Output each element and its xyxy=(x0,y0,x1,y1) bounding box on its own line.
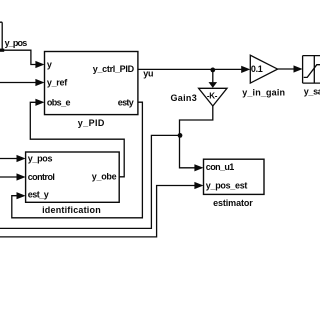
arrow into y_ref port xyxy=(35,79,44,86)
arrow into est_y port xyxy=(17,192,26,199)
svg-text:y_ctrl_PID: y_ctrl_PID xyxy=(93,64,135,74)
junction on Gain3 output wire xyxy=(178,133,183,138)
svg-text:con_u1: con_u1 xyxy=(206,162,235,172)
subsystem block identification xyxy=(26,152,120,202)
junction on yu wire xyxy=(210,68,215,73)
wire y_pos_est feed from left edge to estimator xyxy=(0,186,195,237)
arrow into y_pos_est port xyxy=(194,182,203,189)
svg-text:y_PID: y_PID xyxy=(78,118,105,128)
gain block Gain3 (triangle pointing down) xyxy=(199,88,227,106)
svg-text:-K-: -K- xyxy=(207,91,218,100)
wire y_in_gain output to saturation xyxy=(278,68,294,70)
wire control input from left edge xyxy=(0,176,17,178)
svg-text:y_sat: y_sat xyxy=(304,87,320,97)
subsystem block y_PID xyxy=(45,52,138,115)
subsystem block estimator xyxy=(204,159,265,194)
svg-text:0.1: 0.1 xyxy=(251,64,263,74)
arrow into con_u1 xyxy=(194,164,203,171)
wire branch to left edge (control loop out) xyxy=(0,135,180,228)
arrow into y_in_gain xyxy=(241,66,250,73)
arrow into obs_e port xyxy=(35,99,44,106)
gain block y_in_gain (triangle) xyxy=(250,55,277,83)
svg-text:control: control xyxy=(28,172,55,182)
svg-text:est_y: est_y xyxy=(28,190,49,200)
svg-text:y_in_gain: y_in_gain xyxy=(242,87,285,97)
wire y_ref from left edge xyxy=(0,82,36,84)
arrow into saturation block xyxy=(294,65,303,72)
svg-text:obs_e: obs_e xyxy=(47,97,71,107)
wire obs_e loop (from y_obe output of identification) xyxy=(30,102,124,177)
svg-text:identification: identification xyxy=(42,205,101,215)
arrow into Gain3 xyxy=(209,82,218,88)
svg-text:y: y xyxy=(47,60,52,70)
svg-text:y_ref: y_ref xyxy=(47,78,68,88)
saturation block y_sat (cut off at right edge) xyxy=(303,56,320,84)
svg-text:y_pos_est: y_pos_est xyxy=(206,181,248,191)
arrow into y_pos port xyxy=(17,155,26,162)
svg-text:Gain3: Gain3 xyxy=(170,93,197,103)
svg-text:estimator: estimator xyxy=(213,198,253,208)
arrow into control port xyxy=(17,173,26,180)
output port stub of cut block xyxy=(0,49,4,52)
wire y_pos to y input of y_PID xyxy=(2,50,36,64)
block (cut off at left edge) with y_pos output xyxy=(0,22,2,50)
svg-text:esty: esty xyxy=(118,98,134,108)
wire Gain3 output to con_u1 of estimator xyxy=(180,106,213,168)
arrow into y port xyxy=(35,61,44,68)
svg-text:y_obe: y_obe xyxy=(92,171,117,181)
svg-text:y_pos: y_pos xyxy=(5,38,28,48)
svg-text:y_pos: y_pos xyxy=(28,154,53,164)
wire esty loop (esty output to est_y input) xyxy=(12,102,143,218)
wire yu (y_ctrl_PID output to y_in_gain) xyxy=(138,68,242,70)
svg-text:yu: yu xyxy=(143,69,153,79)
wire junction down to Gain3 xyxy=(212,70,214,83)
wire y_pos input to identification from left edge xyxy=(0,158,17,160)
